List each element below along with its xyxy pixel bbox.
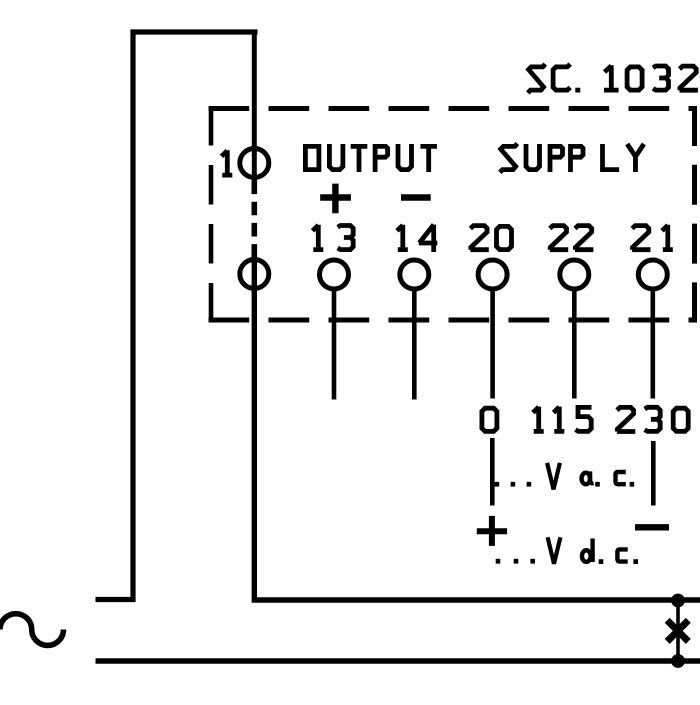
node: junction dot lower right bbox=[671, 654, 685, 668]
dc minus sign bbox=[635, 524, 669, 530]
label SUPPLY bbox=[500, 144, 644, 173]
terminal 21 circle bbox=[638, 260, 667, 289]
terminal 20 circle bbox=[478, 260, 507, 289]
wire: stub below terminal 21 bbox=[650, 289, 655, 399]
wire: bottom supply line bbox=[96, 658, 700, 664]
AC source sine symbol bbox=[0, 614, 64, 646]
label terminal 22 bbox=[550, 226, 594, 250]
label SC. 1032 bbox=[528, 64, 698, 93]
wire: removable link between supply lines bbox=[676, 600, 680, 661]
wire: stub below terminal 14 bbox=[412, 289, 417, 400]
label ...V d.c. bbox=[496, 537, 638, 564]
label 230 (supply tap) bbox=[617, 407, 688, 431]
wire: stub below terminal 22 bbox=[572, 289, 577, 399]
label 0 (supply tap) bbox=[482, 408, 497, 431]
label terminal 21 bbox=[632, 225, 673, 250]
wire: supply selector 0 lead bbox=[490, 438, 495, 506]
label terminal 20 bbox=[470, 226, 511, 250]
label terminal 14 bbox=[397, 225, 437, 252]
node: junction dot upper right bbox=[671, 594, 685, 608]
label 115 (supply tap) bbox=[533, 407, 592, 432]
terminal 1 upper circle bbox=[240, 149, 269, 178]
label terminal 13 bbox=[313, 225, 354, 250]
wire: dashed link between terminal 1 upper and lower circles bbox=[252, 181, 258, 260]
dashed enclosure box SC.1032: left edge bbox=[209, 106, 214, 323]
wire: stub below terminal 13 bbox=[332, 289, 337, 400]
terminal 22 circle bbox=[560, 260, 589, 289]
dashed enclosure box SC.1032: top edge bbox=[209, 106, 698, 111]
label ...V a.c. bbox=[495, 463, 635, 490]
dc plus sign bbox=[477, 516, 507, 546]
output minus sign bbox=[401, 194, 431, 200]
wire: stub below terminal 20 bbox=[490, 289, 495, 399]
dashed enclosure box SC.1032: right edge bbox=[692, 106, 697, 323]
terminal 13 circle bbox=[320, 260, 349, 289]
dashed enclosure box SC.1032: bottom edge bbox=[209, 318, 698, 323]
terminal 14 circle bbox=[400, 260, 429, 289]
wire: vertical from terminal 1 lower circle down and bottom horizontal to right edge bbox=[254, 259, 700, 600]
output plus sign bbox=[320, 184, 351, 214]
wire: right vertical drop from top bar into terminal 1 bbox=[252, 30, 257, 181]
terminal 1 lower circle bbox=[240, 260, 269, 289]
label OUTPUT bbox=[305, 144, 437, 172]
label terminal 1 bbox=[222, 150, 233, 175]
wire: AC supply left branch (top bar, left vertical, left stub) bbox=[96, 32, 258, 600]
link X mark bbox=[667, 620, 688, 641]
wire: supply selector 230 lead bbox=[651, 441, 656, 506]
